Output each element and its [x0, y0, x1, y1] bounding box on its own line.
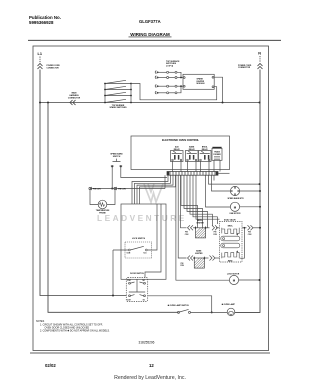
wire lock switch com [113, 250, 128, 296]
wire door switch to oven lamp line [148, 296, 212, 313]
wire strip to bake igniter [178, 175, 186, 258]
wire strip to broil igniter [181, 175, 187, 228]
wire row2 to module [177, 77, 183, 79]
wire module to N [214, 77, 223, 102]
svg-text:2. COMPONENTS WITH ✱ DO NOT A: 2. COMPONENTS WITH ✱ DO NOT APPEAR ON AL… [40, 330, 110, 333]
wire strip to speed bake switch [121, 167, 167, 177]
wire bundle strip to latch assembly [121, 167, 260, 280]
relay K1 (DLB) [171, 147, 184, 162]
svg-text:PIN: PIN [248, 232, 252, 234]
spark igniter module U1 [183, 74, 214, 89]
svg-text:COM: COM [127, 252, 131, 254]
wire jog B [184, 175, 202, 228]
svg-text:LEADVENTURE: LEADVENTURE [97, 213, 187, 223]
svg-text:SPEED BAKE MTR: SPEED BAKE MTR [227, 197, 244, 200]
top burner igniter switches [105, 80, 131, 102]
svg-text:FAN MOTOR: FAN MOTOR [230, 212, 241, 215]
svg-text:PIN: PIN [181, 263, 185, 265]
svg-text:MODULE: MODULE [197, 83, 206, 85]
footer rule [30, 352, 270, 354]
wire door switch no up [145, 204, 161, 278]
svg-text:N: N [258, 51, 261, 55]
svg-text:COM: COM [127, 299, 131, 301]
svg-text:CONNECTOR: CONNECTOR [68, 97, 81, 99]
svg-text:L1: L1 [38, 52, 42, 56]
electronic oven control box [131, 136, 230, 170]
temperature probe circuit [89, 187, 165, 209]
svg-text:✱ OVEN LAMP SWITCH: ✱ OVEN LAMP SWITCH [168, 304, 190, 307]
svg-text:NC: NC [143, 299, 146, 301]
svg-text:WIRING DIAGRAM: WIRING DIAGRAM [130, 32, 170, 37]
power cord connector N [259, 56, 261, 63]
svg-text:IGNITER: IGNITER [196, 222, 204, 224]
wire row1 to module [177, 72, 181, 77]
svg-text:(1 OF 4): (1 OF 4) [166, 65, 173, 68]
svg-text:318255206: 318255206 [139, 341, 155, 345]
svg-text:CONNECTOR: CONNECTOR [47, 68, 60, 70]
wire L1 vertical and bottom run [40, 70, 126, 296]
svg-text:SPARK SWITCHES: SPARK SWITCHES [110, 106, 128, 109]
power cord connector L1 [39, 57, 41, 63]
wire row4 to module [177, 86, 181, 93]
svg-text:02/02: 02/02 [45, 363, 56, 368]
svg-text:12: 12 [149, 363, 154, 368]
transformer T1 [212, 147, 222, 161]
wire speed bake switch left to probe line [111, 167, 113, 188]
eoc connector strip P1 [167, 172, 218, 176]
svg-text:COM: COM [127, 280, 131, 282]
wire N vertical [235, 70, 260, 313]
temperature probe RT1 [90, 190, 115, 205]
wire stubs under strip [213, 175, 215, 180]
svg-text:✱ OVEN LAMP: ✱ OVEN LAMP [222, 303, 236, 306]
svg-text:NO: NO [143, 280, 146, 282]
broil valve body [221, 236, 240, 241]
broil solenoid coil [222, 228, 239, 234]
wire row3 to module [177, 85, 183, 87]
svg-text:GLGF377A: GLGF377A [139, 19, 161, 24]
svg-text:CON: CON [180, 265, 184, 267]
fan motor B2 [230, 202, 260, 211]
svg-text:Rendered by LeadVenture, Inc.: Rendered by LeadVenture, Inc. [114, 375, 186, 381]
bake solenoid coil [236, 250, 238, 252]
junction dots on main line [39, 102, 261, 104]
svg-text:5995366928: 5995366928 [29, 20, 54, 25]
speed bake motor B1 [230, 186, 260, 195]
wire strip to N [209, 175, 260, 184]
relay K3 (broil) [199, 147, 212, 162]
svg-text:N.O.: N.O. [144, 252, 148, 254]
svg-text:PIN CON: PIN CON [93, 188, 101, 190]
main harness connector [70, 100, 76, 105]
wire jog D [190, 175, 212, 226]
wire main horizontal L1 to N [40, 102, 260, 104]
svg-text:LOCK SWITCH: LOCK SWITCH [132, 238, 146, 240]
svg-text:BROIL: BROIL [228, 226, 233, 228]
wire strip right to eoc edge [218, 172, 230, 174]
watermark logo [144, 184, 163, 202]
wire jog A [181, 175, 197, 228]
svg-text:PIN CON: PIN CON [118, 188, 126, 190]
svg-text:PROBE: PROBE [99, 213, 106, 215]
wire probe line to strip [164, 175, 166, 188]
wire left branch to lamp line [48, 103, 179, 313]
svg-text:DOOR SWITCH: DOOR SWITCH [130, 273, 144, 275]
door latch assembly box [121, 204, 166, 279]
svg-text:PIN: PIN [214, 232, 218, 234]
svg-text:LOCK MOTOR: LOCK MOTOR [227, 273, 240, 275]
wire jog E [193, 175, 217, 224]
svg-text:CON: CON [248, 234, 252, 236]
bake valve body [221, 243, 240, 248]
svg-text:BAKE: BAKE [228, 259, 233, 262]
pin connector right [114, 187, 116, 189]
svg-text:IGNITER: IGNITER [195, 253, 203, 255]
svg-text:FORMER: FORMER [213, 154, 221, 156]
wire strip to fan motor [206, 175, 231, 207]
svg-text:CON: CON [213, 234, 217, 236]
wire jog C [187, 175, 207, 228]
relay wires to connector strip [173, 160, 221, 171]
wire valve to N [240, 225, 260, 258]
svg-text:CONNECTOR: CONNECTOR [238, 67, 251, 69]
svg-text:DUAL VALVE: DUAL VALVE [224, 219, 237, 222]
wire jog F [196, 175, 220, 219]
wire module return to spark switches [131, 84, 217, 100]
relay K2 (bake) [186, 146, 199, 162]
diagram border [33, 46, 269, 351]
wire strip to lock motor [176, 175, 230, 280]
svg-text:PIN: PIN [185, 232, 189, 234]
top surface switch rows [155, 71, 183, 94]
pin connector left [89, 187, 91, 189]
svg-text:ELECTRONIC OVEN CONTROL: ELECTRONIC OVEN CONTROL [162, 139, 200, 142]
wire strip to speed bake motor [212, 175, 231, 191]
svg-text:SWITCH: SWITCH [113, 156, 121, 158]
label power cord connector L1 [47, 65, 252, 100]
wire lock switch no up [147, 204, 157, 250]
header rule [28, 39, 281, 41]
svg-text:CON: CON [185, 234, 189, 236]
